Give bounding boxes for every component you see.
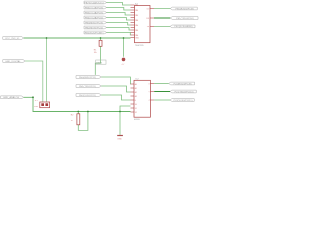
wire IC2 pin Y to flag: [154, 91, 170, 93]
net flag OE1 (right of IC1): [170, 25, 195, 28]
wire R2 bottom loop: [78, 112, 88, 131]
wire IC1 pin OE to flag: [154, 25, 170, 27]
net flag Z (right of IC2): [170, 99, 194, 102]
op IC1 body: [135, 6, 151, 43]
ground symbol: [117, 135, 123, 137]
IC1 right pin stubs: [150, 9, 154, 27]
net flag X (right of IC2): [169, 82, 195, 85]
net flag M1 (left of IC2): [76, 76, 101, 79]
ground label GND: [117, 138, 122, 140]
wire flag to IC1 pin 3: [107, 13, 131, 16]
net flag DATA1 (right of IC1): [170, 7, 197, 10]
IC1 value label: [135, 45, 144, 47]
IC1 left pin stubs: [131, 5, 135, 38]
net flag CLK1 (right of IC1): [170, 17, 198, 20]
wire IC2 pin X to flag: [154, 83, 169, 85]
svg-text:PB5(OC1A/PCI5): PB5(OC1A/PCI5): [85, 11, 104, 14]
net flag GND2 (left bottom): [1, 96, 24, 99]
IC2 right pin stubs: [150, 84, 154, 101]
wire flag to IC2 pin 2: [101, 86, 130, 92]
wire flag to IC1 pin 5: [107, 23, 131, 26]
R2 value label: [71, 120, 73, 122]
svg-text:PJ1(TXD3/PCI10): PJ1(TXD3/PCI10): [175, 91, 194, 93]
svg-text:OE: OE: [147, 26, 149, 28]
net flag VCC (left, y38): [3, 37, 24, 40]
svg-text:JP1: JP1: [35, 100, 38, 102]
net flag N$1 (left column): [84, 1, 107, 4]
IC2 value label: [134, 119, 140, 121]
svg-text:Z: Z: [149, 100, 150, 102]
wire R1 bottom route: [95, 46, 100, 75]
svg-text:S1: S1: [135, 108, 137, 110]
svg-text:10k: 10k: [94, 52, 97, 54]
resistor R1 body: [99, 40, 102, 46]
IC1 interior pin names: [135, 4, 150, 40]
net flag GNDIO (left, y61): [3, 60, 25, 63]
net flag Y (right of IC2): [170, 90, 196, 93]
svg-text:PJ0(RXD3/PCI9): PJ0(RXD3/PCI9): [174, 83, 192, 85]
JP1 name label: [35, 100, 38, 102]
svg-text:4051D: 4051D: [134, 119, 140, 121]
svg-text:GND_ANALOG: GND_ANALOG: [3, 96, 19, 99]
net flag N$4 (left column): [84, 16, 107, 19]
junction on y38 at x123.5: [123, 37, 125, 39]
JP1 value label: [34, 106, 39, 108]
junction at x78.3 bottom wire: [77, 111, 79, 113]
wire R2 top stub: [77, 112, 79, 114]
wire flag y61 to vertical: [25, 61, 43, 102]
net flag M2 (left of IC2): [76, 85, 101, 88]
net flag N$7 (left column): [84, 31, 107, 34]
svg-text:PB2(MOSI/PCI2): PB2(MOSI/PCI2): [85, 27, 103, 29]
junction at x120 bottom wire: [119, 111, 121, 113]
svg-text:1k: 1k: [71, 120, 73, 122]
wire IC1 pin DO to flag: [154, 8, 170, 10]
junction on y38 at x100.5: [100, 37, 102, 39]
svg-text:PB3(MISO/PCI3): PB3(MISO/PCI3): [85, 22, 103, 24]
IC2 name label: [136, 79, 140, 81]
wire bottom long horizontal: [24, 97, 131, 111]
connector JP1 body: [40, 102, 50, 108]
svg-text:PH0(RXD2/PCI): PH0(RXD2/PCI): [79, 77, 96, 79]
IC2 interior pin names: [135, 83, 151, 114]
junction at x33 y97.3: [32, 96, 34, 98]
IC1 name label: [135, 4, 139, 6]
wire flag to IC1 pin 4: [107, 18, 131, 21]
junction at x87.9 bottom wire: [87, 111, 89, 113]
svg-text:PJ2(XCK3/PCI11): PJ2(XCK3/PCI11): [174, 100, 193, 102]
supply +5V symbol: [121, 58, 125, 66]
wire branch up to IC2 pin: [120, 106, 131, 112]
svg-text:PE2(XCK0/AIN0): PE2(XCK0/AIN0): [174, 25, 192, 28]
svg-text:VCC_3V3_IO: VCC_3V3_IO: [5, 38, 19, 40]
svg-text:74HC595: 74HC595: [135, 45, 144, 47]
junction on y38 at x46.5: [46, 37, 48, 39]
svg-text:PH2(XCK2/PCI): PH2(XCK2/PCI): [79, 95, 96, 97]
svg-text:PB1(SCK/PCINT): PB1(SCK/PCINT): [85, 32, 104, 34]
R2 name label: [71, 114, 74, 116]
R1 value label: [94, 52, 97, 54]
wire IC1 pin CLK to flag: [154, 17, 170, 19]
wire flag to IC2 pin 1: [101, 77, 130, 84]
wire long horizontal net y38: [24, 37, 131, 39]
wire to +5V supply: [123, 38, 125, 57]
net flag N$6 (left column): [84, 26, 107, 29]
wire flag to IC1 pin 7: [107, 33, 131, 36]
net flag N$3 (left column): [84, 11, 107, 14]
svg-text:PH1(TXD2/PCI): PH1(TXD2/PCI): [79, 86, 96, 88]
svg-text:E: E: [135, 100, 136, 102]
svg-text:GND: GND: [117, 138, 122, 140]
net label box RST: [96, 60, 106, 65]
net flag N$2 (left column): [84, 6, 107, 9]
svg-text:PE0(RXD0/PCI8): PE0(RXD0/PCI8): [176, 8, 194, 10]
svg-text:PB6(OC1B/PCI6): PB6(OC1B/PCI6): [85, 7, 104, 9]
wire flag to IC2 pin 3: [101, 95, 130, 100]
op IC2 body: [134, 80, 150, 117]
svg-text:PE1(TXD0/PDO): PE1(TXD0/PDO): [176, 18, 194, 20]
wire IC2 pin Z to flag: [154, 99, 170, 101]
svg-text:PB4(OC2A/PCI4): PB4(OC2A/PCI4): [85, 16, 104, 19]
net flag M3 (left of IC2): [76, 94, 101, 97]
wire flag to IC1 pin 1: [107, 3, 131, 6]
svg-text:S0: S0: [135, 104, 137, 106]
wire flag to IC1 pin 6: [107, 28, 131, 31]
svg-text:RSTN: RSTN: [96, 63, 102, 65]
wire flag to IC1 pin 2: [107, 8, 131, 11]
wire to ground: [119, 112, 121, 135]
wire R1 top stub: [100, 38, 102, 40]
wire vertical x46.5 to connector: [46, 38, 48, 102]
resistor R2 body: [77, 114, 80, 125]
R1 name label: [94, 49, 97, 51]
svg-text:S2: S2: [135, 112, 137, 114]
net flag N$5 (left column): [84, 21, 107, 24]
svg-text:PB7(OC0A/OC1C): PB7(OC0A/OC1C): [84, 1, 104, 4]
svg-text:GND_DIGITAL: GND_DIGITAL: [5, 60, 21, 63]
IC2 left pin stubs: [131, 84, 135, 112]
